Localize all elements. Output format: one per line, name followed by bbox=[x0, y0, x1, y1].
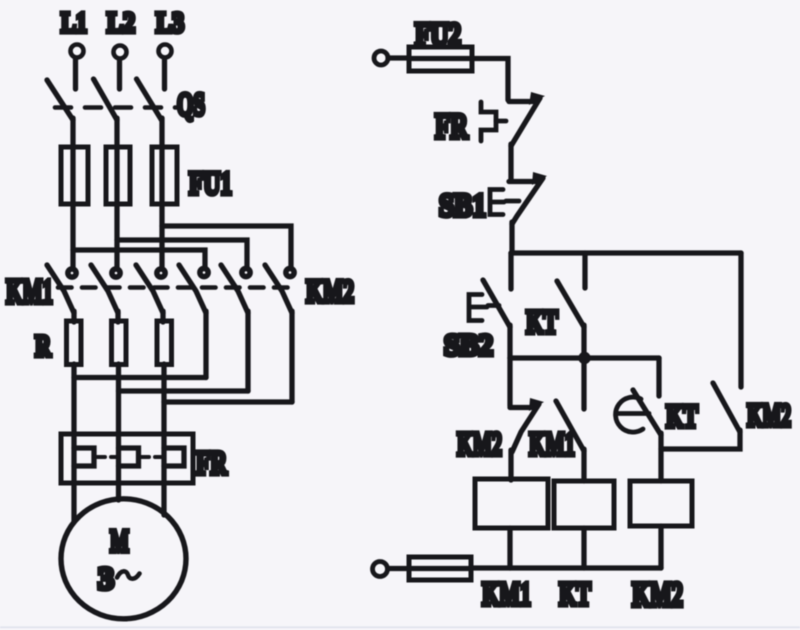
wire KM1 coil to bus bbox=[507, 528, 512, 568]
wire tap phase1 to KM2 pole1 bbox=[73, 250, 205, 268]
contacts link dashed KM1 KM2 bbox=[58, 285, 288, 290]
contact KM1 pole1 hook bbox=[68, 269, 76, 277]
switch QS pole 2 blade bbox=[94, 79, 118, 120]
svg-text:KT: KT bbox=[666, 399, 698, 435]
relay FR box bbox=[61, 434, 193, 483]
resistor R pole1 bbox=[67, 321, 82, 365]
faint scan line bottom bbox=[0, 627, 800, 629]
wire phase1 vertical bbox=[70, 118, 75, 267]
svg-text:L1: L1 bbox=[61, 7, 87, 39]
svg-text:KM1: KM1 bbox=[529, 426, 575, 463]
svg-text:KM2: KM2 bbox=[632, 576, 683, 614]
wire KM2 pole1 drop bbox=[203, 311, 208, 378]
svg-text:R: R bbox=[35, 328, 51, 363]
wire KM2 coil to bus bbox=[658, 526, 663, 568]
contact KM2 pole1 hook bbox=[200, 268, 208, 276]
relay FR heater2 bbox=[119, 448, 139, 466]
fuse FU1 pole 2 bbox=[106, 147, 130, 204]
contact SB1 NC arrowhead bbox=[532, 172, 547, 185]
contact KM2 NC terminal bbox=[507, 358, 512, 406]
wire to KT coil bbox=[581, 449, 586, 481]
button SB2 actuator E bbox=[469, 295, 487, 321]
contact SB1 NC blade bbox=[512, 178, 543, 224]
svg-text:L3: L3 bbox=[156, 7, 184, 39]
switch QS pole 3 blade bbox=[137, 79, 162, 120]
svg-text:KM1: KM1 bbox=[6, 273, 53, 311]
terminal L1 bbox=[71, 45, 84, 58]
contact KM2 pole3 blade bbox=[265, 265, 292, 313]
svg-text:FU1: FU1 bbox=[189, 166, 232, 202]
coil KM1 bbox=[475, 479, 548, 528]
wire to KM1 coil bbox=[508, 450, 513, 480]
contact KM1 pole1 blade bbox=[47, 265, 74, 313]
wire bypass1 bbox=[74, 375, 206, 380]
contact KM2 NC bar bbox=[510, 405, 536, 410]
contact KM1 NO blade bbox=[556, 401, 584, 451]
wire through FU2 to corner bbox=[409, 59, 508, 101]
terminal control top bbox=[374, 51, 388, 65]
contact FR NC arrowhead bbox=[529, 92, 545, 105]
relay FR heater link dashed bbox=[97, 455, 161, 459]
wire tap phase2 to KM2 pole2 bbox=[117, 240, 247, 268]
resistor R pole3 bbox=[157, 321, 172, 365]
node junction dot bbox=[578, 352, 590, 364]
wire SB2 to node bbox=[507, 325, 512, 358]
svg-text:QS: QS bbox=[177, 87, 205, 123]
svg-text:KM2: KM2 bbox=[747, 398, 791, 434]
svg-text:L2: L2 bbox=[107, 7, 135, 39]
contact KT delayed bar bbox=[617, 411, 649, 416]
wire SB1 to junction bbox=[509, 222, 514, 253]
wire phase2 lower vertical bbox=[116, 364, 121, 500]
button SB1 actuator E bbox=[490, 190, 504, 215]
contact KM2 pole2 hook bbox=[242, 268, 250, 276]
contact SB1 NC bar bbox=[509, 179, 538, 184]
fuse FU1 pole 1 bbox=[61, 147, 88, 204]
relay FR heater1 bbox=[74, 448, 94, 466]
contact KM1 pole3 blade bbox=[136, 265, 163, 313]
contact KM2 pole1 blade bbox=[179, 265, 206, 313]
svg-text:SB2: SB2 bbox=[444, 327, 493, 362]
wire bypass3 bbox=[164, 399, 292, 404]
wire KT branch drop bbox=[582, 253, 587, 288]
contact KM2 NC blade bbox=[512, 404, 539, 452]
wire bypass2 bbox=[119, 388, 249, 393]
resistor R pole2 bbox=[112, 321, 127, 365]
wire L2 drop bbox=[117, 59, 122, 89]
motor M circle bbox=[61, 499, 186, 619]
contact KM1 pole3 hook bbox=[157, 269, 165, 277]
relay FR heater3 bbox=[164, 448, 184, 466]
contact KT NO blade bbox=[557, 281, 584, 327]
svg-text:3: 3 bbox=[98, 560, 114, 596]
svg-text:FR: FR bbox=[196, 445, 228, 482]
contact KM2 NO right blade bbox=[713, 383, 740, 432]
wire control bus top bbox=[511, 250, 741, 255]
wire control bus mid bbox=[510, 355, 659, 360]
wire KM1 pole3 to resistor bbox=[160, 311, 165, 322]
relay FR release actuator bbox=[481, 102, 496, 141]
wire KT delayed to KM2 coil bbox=[658, 433, 663, 481]
wire phase3 vertical bbox=[159, 118, 164, 267]
coil KM2 bbox=[630, 481, 692, 526]
relay FR actuator nub bbox=[496, 119, 506, 124]
wire FR to SB1 bbox=[508, 144, 513, 180]
terminal L3 bbox=[159, 45, 172, 58]
svg-text:KM1: KM1 bbox=[482, 576, 531, 613]
contact KT delayed arc bbox=[616, 397, 643, 432]
svg-text:KM2: KM2 bbox=[306, 274, 354, 310]
coil KT bbox=[554, 481, 614, 528]
wire terminal to FU2 bbox=[388, 55, 409, 60]
svg-text:M: M bbox=[110, 523, 129, 559]
wire KT contact down through node bbox=[581, 325, 586, 409]
svg-text:SB1: SB1 bbox=[439, 188, 486, 224]
wire KM2 pole3 drop bbox=[289, 311, 294, 402]
fuse bottom bbox=[409, 557, 471, 580]
motor tilde bbox=[117, 571, 140, 578]
svg-text:KM2: KM2 bbox=[457, 426, 502, 463]
wire right branch drop bbox=[738, 253, 743, 387]
wire KM2 NO bottom bbox=[661, 430, 740, 449]
button SB2 terminal bbox=[508, 253, 513, 289]
contact FR NC bar bbox=[509, 99, 536, 104]
wire L1 drop bbox=[73, 58, 78, 89]
contact KM1 pole2 blade bbox=[91, 265, 118, 313]
wire KM2 pole2 drop bbox=[245, 311, 250, 391]
contact KM1 pole2 hook bbox=[112, 269, 120, 277]
wire phase3 lower vertical bbox=[161, 364, 166, 515]
wire KM1 pole2 to resistor bbox=[115, 311, 120, 322]
switch QS pole 1 blade bbox=[47, 80, 73, 120]
wire corner to KT delayed bbox=[656, 358, 661, 396]
svg-text:FR: FR bbox=[435, 106, 468, 146]
fuse FU1 pole 3 bbox=[152, 147, 177, 204]
wire phase2 vertical bbox=[114, 118, 119, 267]
wire KM1 pole1 to resistor bbox=[71, 311, 76, 322]
contact KT delayed blade bbox=[633, 390, 661, 435]
wire KT coil to bus bbox=[581, 528, 586, 568]
wire L3 drop bbox=[162, 58, 167, 89]
contact KM2 pole2 blade bbox=[221, 265, 248, 313]
wire phase1 lower vertical bbox=[71, 364, 76, 521]
svg-text:KT: KT bbox=[559, 576, 591, 613]
button SB2 actuator link bbox=[488, 303, 499, 308]
wire tap phase3 to KM2 pole3 bbox=[162, 226, 291, 268]
contact KM2 NC arrowhead bbox=[529, 398, 544, 411]
wire through bottom fuse bbox=[409, 566, 471, 571]
switch QS link (dashed) bbox=[55, 105, 176, 110]
fuse FU2 bbox=[409, 47, 472, 71]
terminal control bottom bbox=[373, 562, 388, 577]
contact KM2 pole3 hook bbox=[286, 268, 294, 276]
wire bottom bus bbox=[471, 565, 661, 570]
contact FR NC blade bbox=[511, 98, 540, 146]
terminal L2 bbox=[114, 46, 127, 59]
button SB2 blade bbox=[483, 280, 510, 327]
svg-text:KT: KT bbox=[526, 304, 558, 341]
button SB1 actuator link bbox=[506, 199, 519, 204]
wire terminal to bottom fuse bbox=[388, 566, 409, 571]
